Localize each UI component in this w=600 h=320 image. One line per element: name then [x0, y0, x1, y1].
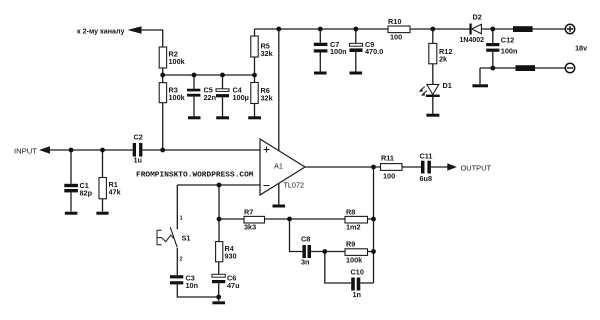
junction C7 [318, 27, 323, 32]
svg-text:R7: R7 [244, 207, 253, 216]
junction R5 R6 [252, 73, 257, 78]
svg-text:D1: D1 [443, 81, 452, 90]
wire minus supply rail [480, 67, 566, 69]
wire top supply rail [255, 28, 566, 30]
wire R12 stubs [432, 29, 434, 84]
junction C12 top [490, 27, 495, 32]
wire supply ground drop [479, 68, 481, 84]
ground bottom node [212, 301, 225, 304]
junction C5 rail [192, 73, 197, 78]
svg-text:INPUT: INPUT [14, 147, 38, 156]
svg-text:R8: R8 [346, 207, 355, 216]
capacitor C2 [133, 133, 143, 165]
svg-text:22n: 22n [204, 93, 217, 102]
svg-text:100n: 100n [330, 47, 347, 56]
svg-text:FROMPINSKTO.WORDPRESS.COM: FROMPINSKTO.WORDPRESS.COM [136, 172, 254, 180]
junction V+ drop [276, 27, 281, 32]
svg-text:2k: 2k [439, 55, 448, 64]
svg-text:C2: C2 [134, 133, 143, 142]
resistor R6 [251, 83, 274, 104]
svg-text:R11: R11 [381, 154, 394, 163]
wire R7 R8 row [219, 218, 374, 220]
wire C7 stubs [319, 29, 321, 72]
minus terminal [565, 63, 574, 72]
svg-text:100k: 100k [169, 57, 186, 66]
svg-text:3n: 3n [301, 258, 310, 267]
svg-text:6u8: 6u8 [420, 174, 433, 183]
wire D1 cathode to ground [432, 97, 434, 114]
resistor R7 [244, 207, 265, 231]
wire input rail [50, 149, 260, 151]
resistor R12 [429, 43, 453, 63]
resistor R5 [251, 36, 274, 58]
svg-text:1N4002: 1N4002 [460, 35, 485, 44]
svg-text:32k: 32k [261, 49, 274, 58]
capacitor C9 (electrolytic) [350, 40, 384, 56]
resistor R1 [99, 178, 122, 199]
capacitor C1 [64, 181, 92, 198]
svg-text:A1: A1 [274, 162, 283, 171]
wire R4 column [218, 185, 220, 297]
svg-text:100: 100 [390, 32, 402, 41]
junction R9 feedback [371, 249, 376, 254]
junction C2 R3 [160, 148, 165, 153]
wire R5 stubs [254, 29, 256, 75]
junction inverting node [217, 183, 222, 188]
ground under R6 [248, 116, 261, 119]
wire R2 bottom to rail [162, 68, 164, 75]
capacitor C8 [301, 235, 311, 267]
svg-text:C10: C10 [351, 268, 364, 277]
svg-text:к 2-му каналу: к 2-му каналу [77, 27, 125, 36]
resistor R2 [159, 47, 185, 68]
svg-text:TL072: TL072 [284, 181, 305, 190]
ground under D1 [426, 114, 439, 117]
wire C9 stubs [355, 29, 357, 72]
svg-text:100: 100 [383, 172, 395, 181]
svg-text:1n: 1n [353, 290, 362, 299]
wire R1 stubs [102, 150, 104, 211]
junction bottom ground node [216, 295, 221, 300]
svg-text:D2: D2 [473, 13, 482, 22]
capacitor C11 [420, 152, 433, 184]
to-2nd-channel arrow [128, 26, 142, 34]
LED D1 [419, 81, 452, 97]
resistor R9 [345, 240, 368, 265]
ground under C7 [314, 72, 327, 75]
svg-text:10n: 10n [186, 281, 199, 290]
resistor R8 [345, 207, 368, 231]
junction output node [371, 165, 376, 170]
svg-text:R10: R10 [388, 17, 401, 26]
wire R3 top stub [162, 75, 164, 83]
svg-text:R9: R9 [346, 240, 355, 249]
junction C12 bottom [490, 66, 495, 71]
svg-text:47u: 47u [227, 281, 240, 290]
capacitor C7 [314, 40, 347, 56]
wire mid rail [163, 74, 255, 76]
wire opamp ground pin [278, 183, 280, 205]
resistor R10 [388, 17, 410, 41]
svg-text:100k: 100k [346, 256, 363, 265]
resistor R4 [216, 242, 237, 262]
ground under opamp [273, 205, 286, 208]
wire S1 pin1 drop [176, 185, 178, 229]
svg-text:32k: 32k [261, 94, 274, 103]
svg-text:82p: 82p [80, 189, 93, 198]
ground supply [472, 84, 488, 87]
output arrow [447, 163, 457, 170]
capacitor C5 [187, 85, 216, 102]
svg-text:1m2: 1m2 [346, 222, 361, 231]
junction R7 R4 [217, 217, 222, 222]
wire C1 stubs [70, 150, 72, 211]
capacitor C4 (electrolytic) [216, 85, 249, 102]
junction R12 [430, 27, 435, 32]
resistor R11 [381, 154, 403, 181]
wire R3 bottom to input rail [162, 103, 164, 150]
diode D2 [460, 13, 485, 45]
svg-text:C12: C12 [501, 36, 514, 45]
junction C1 [69, 148, 74, 153]
wire opamp V+ drop [278, 29, 280, 152]
svg-text:100k: 100k [169, 93, 186, 102]
fuse block minus [516, 65, 536, 71]
ground under R1 [96, 212, 108, 215]
fuse block plus [513, 26, 533, 32]
svg-text:470.0: 470.0 [365, 47, 383, 56]
svg-text:18v: 18v [575, 44, 588, 53]
svg-text:930: 930 [225, 252, 237, 261]
wire C3 bottom to ground node [177, 284, 218, 297]
wire to 2nd channel [141, 30, 163, 47]
capacitor C12 [486, 36, 517, 56]
ground under C5 [188, 116, 201, 119]
junction C4 rail [220, 73, 225, 78]
plus terminal [565, 24, 574, 33]
svg-text:100n: 100n [501, 46, 518, 55]
capacitor C3 [170, 274, 198, 291]
wire S1 pin2 to C3 [176, 248, 178, 275]
junction C8 R9 [322, 249, 327, 254]
ground under C9 [350, 72, 363, 75]
svg-text:47k: 47k [109, 188, 122, 197]
input arrow [39, 146, 50, 154]
op-amp A1 [260, 139, 305, 195]
svg-text:1: 1 [180, 216, 183, 222]
svg-text:2: 2 [180, 257, 183, 263]
resistor R3 [159, 83, 185, 103]
svg-text:C8: C8 [301, 235, 310, 244]
wire C12 stubs [492, 29, 494, 68]
svg-text:C11: C11 [420, 152, 433, 161]
wire R6 stubs [254, 75, 256, 117]
ground under C1 [65, 212, 78, 215]
ground under C4 [216, 116, 229, 119]
junction R2 R3 rail [160, 73, 165, 78]
svg-text:3k3: 3k3 [244, 222, 256, 231]
junction R7 C8 [287, 217, 292, 222]
svg-text:100µ: 100µ [233, 93, 249, 102]
junction R8 feedback [371, 217, 376, 222]
capacitor C6 (electrolytic) [212, 274, 240, 291]
svg-text:1u: 1u [134, 156, 143, 165]
wire opamp output [305, 166, 448, 168]
junction C9 [353, 27, 358, 32]
wire C8 branch [290, 219, 374, 252]
junction R1 [100, 148, 105, 153]
wire ground stub bottom [218, 297, 220, 301]
wire feedback column [373, 167, 375, 283]
wire C5 stubs [193, 75, 195, 117]
svg-text:S1: S1 [182, 234, 191, 243]
capacitor C10 [351, 268, 364, 300]
wire C10 branch [325, 252, 374, 284]
svg-text:OUTPUT: OUTPUT [461, 164, 492, 173]
wire opamp inverting input [177, 184, 260, 186]
wire C4 stubs [222, 75, 224, 117]
switch S1 [157, 216, 190, 263]
